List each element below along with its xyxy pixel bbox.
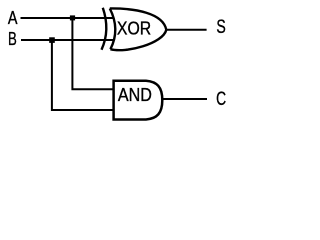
svg-text:A: A xyxy=(8,7,18,28)
svg-text:S: S xyxy=(216,17,225,38)
svg-text:XOR: XOR xyxy=(117,18,151,38)
svg-text:C: C xyxy=(216,88,226,110)
svg-text:B: B xyxy=(8,28,17,49)
svg-text:AND: AND xyxy=(118,85,152,105)
